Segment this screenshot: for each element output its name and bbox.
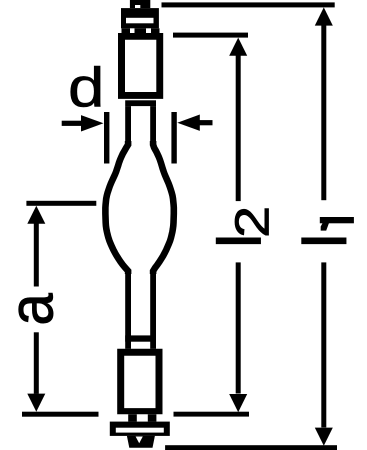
lamp top contact knob [130,0,150,8]
l2 dimension line lower segment [236,262,241,393]
flange slot (white) [116,428,164,433]
top collar under base [125,100,156,106]
top base neck center bar [135,28,147,33]
lamp top ceramic block [121,8,159,28]
a top arrowhead [27,206,45,224]
bottom tube right wall [150,271,156,349]
tapered block notch (white) [136,437,143,444]
l2 dimension line upper segment [236,54,241,201]
a bottom arrowhead [27,394,45,412]
bottom tapered block [127,436,155,448]
a/l2 bottom extension line left segment [22,412,99,417]
l1 dimension line lower segment [321,262,326,427]
bottom base right stub [148,414,157,421]
l2 top arrowhead [229,38,247,56]
svg-text:l: l [291,234,358,247]
a/l2 bottom extension line right segment [174,412,250,417]
bottom tube left wall [125,271,131,349]
top base neck left stub [122,28,131,33]
l1 bottom arrowhead [315,428,333,446]
svg-text:d: d [68,56,104,118]
l2 bottom arrowhead [229,394,247,412]
d right arrow shaft [198,120,213,125]
knob notch (white) [135,5,140,8]
l1 bottom extension line [165,445,337,450]
svg-text:a: a [0,293,66,326]
top tube left wall [125,106,131,145]
svg-text:2: 2 [226,206,279,238]
bottom flange [110,422,170,436]
l1 top arrowhead [315,7,333,25]
top tube right wall [150,106,156,145]
d left arrowhead [81,115,104,131]
a top extension line [26,201,96,206]
d right arrowhead [177,115,200,131]
d left tick [104,112,109,164]
a dimension line lower segment [34,332,39,394]
l2 top extension line [173,33,248,38]
a dimension line upper segment [34,222,39,287]
bulb (outer envelope) [105,141,173,274]
d left arrow shaft [62,121,81,126]
l1 top extension line [162,2,335,7]
bottom collar above base [125,335,156,341]
top base cylinder (outline) [118,33,163,99]
block groove (white slot) [126,18,154,24]
bottom base cylinder (outline) [117,349,162,415]
l1 dimension line upper segment [321,24,326,200]
bottom base left stub [128,414,137,421]
top base neck right stub [151,28,160,33]
d right tick [171,112,176,164]
